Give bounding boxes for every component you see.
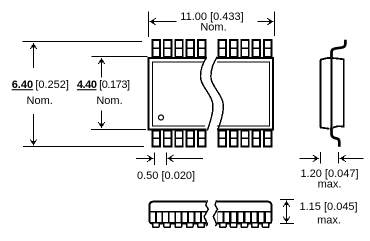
dimension 1.20: right arrow pointing left (339, 155, 363, 162)
svg-text:0.50 [0.020]: 0.50 [0.020] (137, 170, 195, 182)
svg-text:max.: max. (318, 179, 342, 191)
svg-text:Nom.: Nom. (200, 21, 226, 33)
pin 1 index circle (159, 115, 164, 120)
svg-text:1.15 [0.045]: 1.15 [0.045] (300, 201, 358, 213)
package body (top view) outer outline with break gap (149, 58, 274, 130)
dimension 6.40: extension lines (23, 42, 145, 147)
svg-text:Nom.: Nom. (27, 95, 53, 107)
pins bottom-right group (219, 131, 272, 147)
dimension 6.40: up arrow (30, 43, 37, 68)
dimension 0.50: label (137, 170, 195, 182)
dimension 6.40: label (12, 79, 69, 107)
dimension 4.40: up arrow (98, 58, 105, 78)
dimension 11.00: label (180, 11, 243, 34)
svg-text:max.: max. (317, 215, 341, 227)
dimension 1.20: label (300, 168, 358, 191)
dimension 4.40: down arrow (98, 111, 105, 129)
bottom view body band (149, 202, 271, 224)
dimension 1.15: vertical double arrow (283, 200, 290, 223)
side view top lead (332, 40, 346, 58)
svg-text:Nom.: Nom. (96, 95, 122, 107)
dimension 4.40: label (77, 79, 130, 107)
dimension 1.15: label (300, 201, 358, 227)
dimension 0.50: right arrow pointing left (167, 155, 203, 162)
side view lead row line (331, 58, 333, 128)
pins top-right group (219, 40, 272, 57)
side view bottom lead (332, 128, 340, 147)
dimension 1.20: left arrow pointing right (300, 155, 320, 162)
bottom view lead area left (black base) (150, 211, 207, 224)
dimension 0.50: left arrow pointing right (136, 155, 154, 162)
bottom view lead area right (black base) (217, 211, 272, 224)
bottom view feet left (153, 223, 205, 227)
bottom view lead bars left (150, 213, 206, 223)
pins bottom-left group (153, 131, 206, 147)
bottom view lead bars right (218, 213, 271, 223)
bottom view break zigzag left (204, 200, 208, 226)
dimension 11.00: right arrow (258, 18, 274, 25)
svg-text:4.40[0.173]: 4.40[0.173] (77, 79, 130, 91)
svg-text:6.40[0.252]: 6.40[0.252] (12, 79, 69, 91)
bottom view break gap (white) (206, 200, 217, 228)
dimension 11.00: extension lines (149, 12, 275, 38)
package body (top view) inner outline (152, 62, 269, 126)
dimension 4.40: extension lines (91, 57, 148, 130)
bottom view break zigzag right (213, 200, 217, 226)
dimension 6.40: down arrow (30, 114, 37, 146)
break S-curve right (211, 57, 223, 131)
dimension 0.50: tick lines (155, 153, 167, 166)
dimension 1.15: tick lines (280, 200, 294, 224)
dimension 1.20: tick lines (321, 152, 339, 164)
bottom view feet right (220, 223, 269, 227)
pins top-left group (153, 40, 206, 57)
dimension 11.00: left arrow (149, 18, 176, 25)
break S-curve left (201, 57, 213, 131)
side view body (320, 58, 344, 129)
